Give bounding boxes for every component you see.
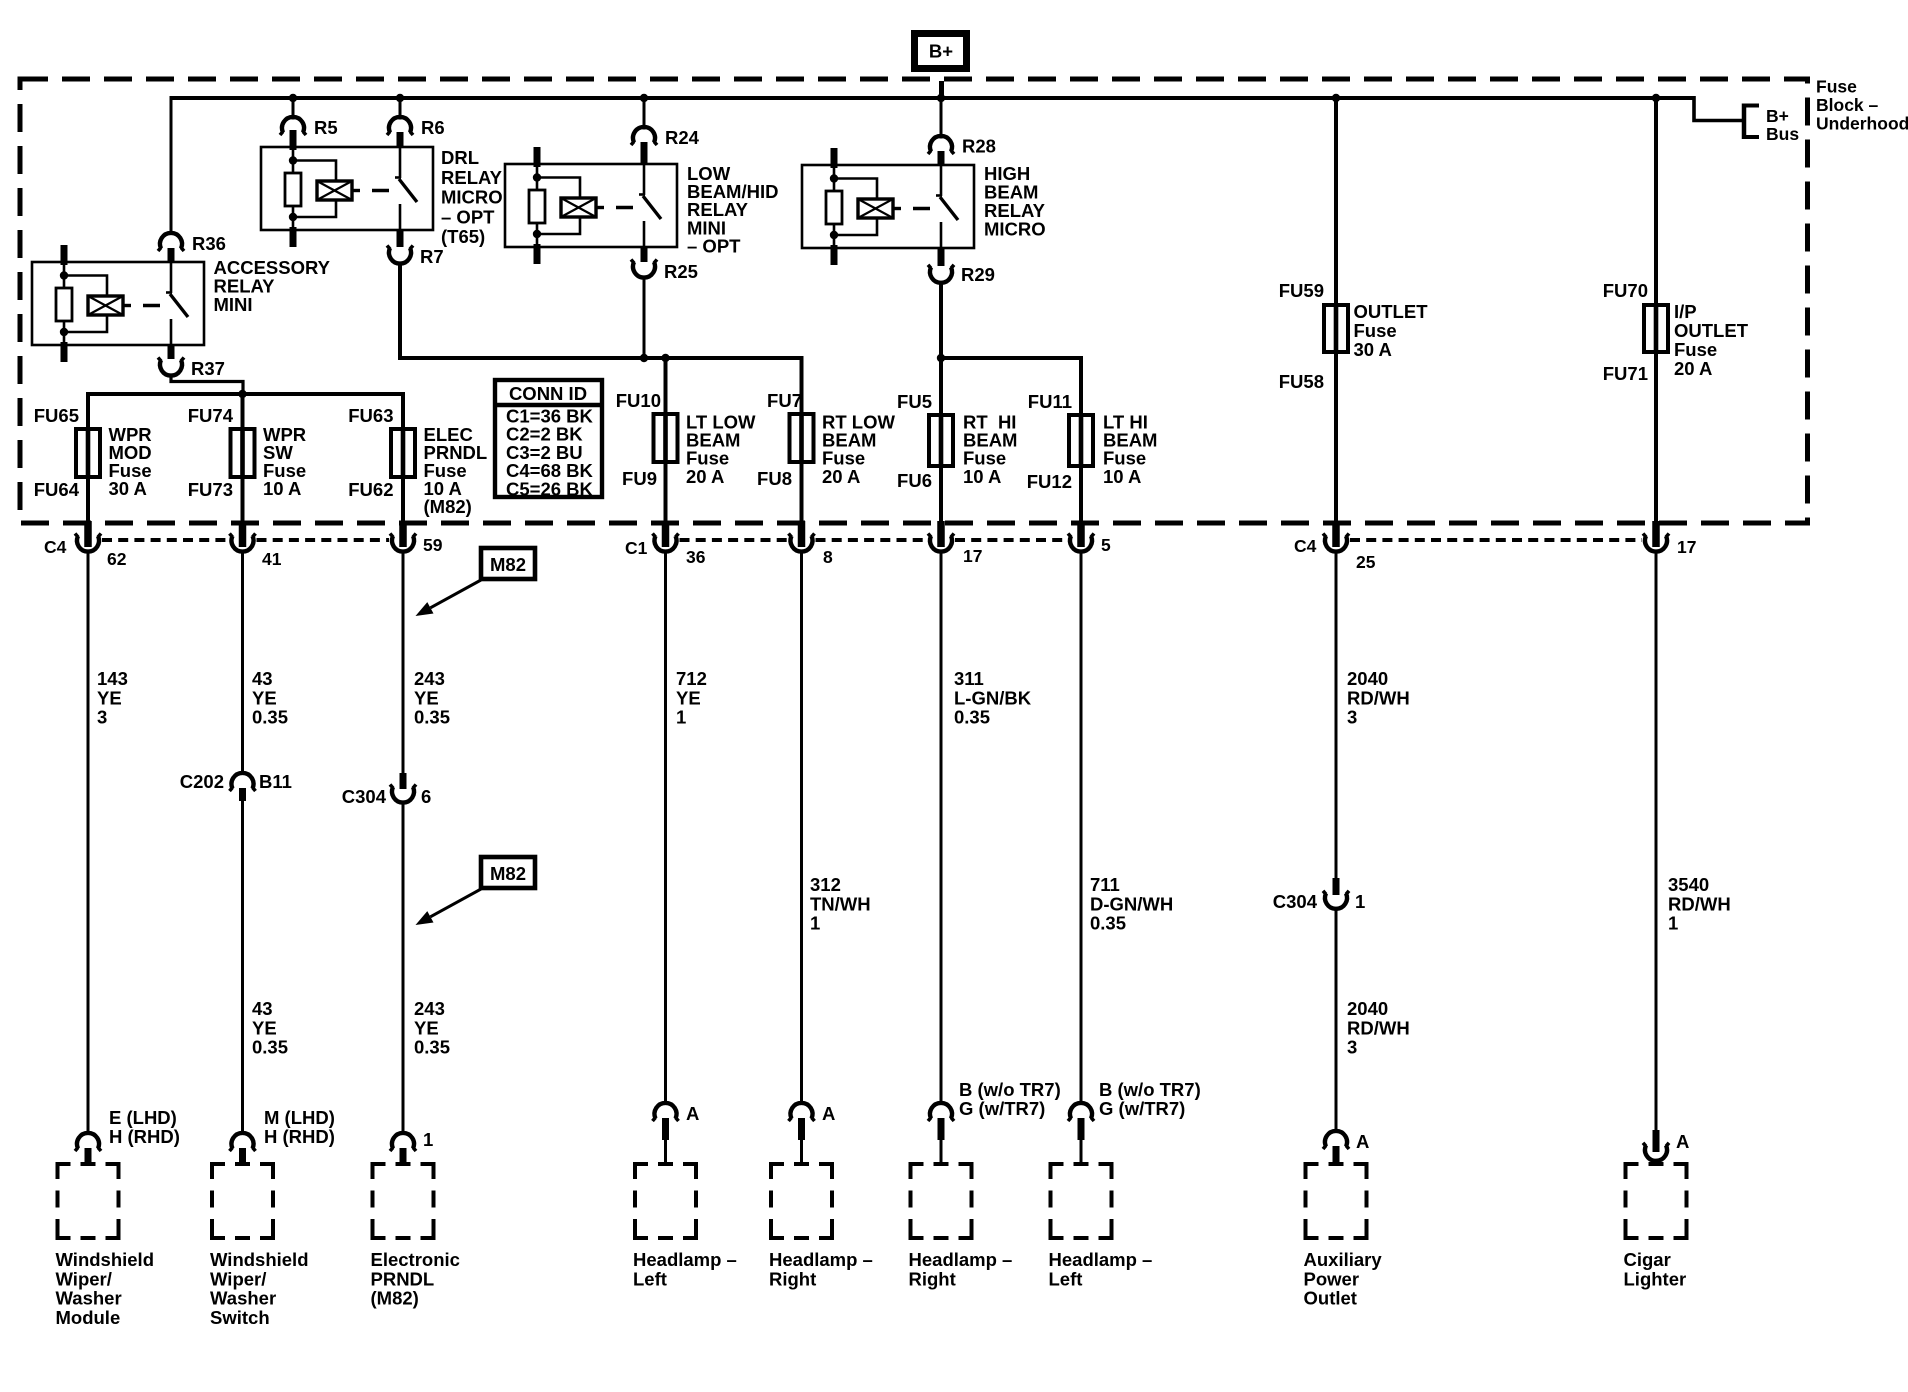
svg-text:Switch: Switch bbox=[210, 1307, 270, 1328]
svg-text:H (RHD): H (RHD) bbox=[109, 1126, 180, 1147]
svg-text:– OPT: – OPT bbox=[687, 235, 741, 256]
svg-text:0.35: 0.35 bbox=[252, 1037, 288, 1058]
svg-text:Wiper/: Wiper/ bbox=[210, 1268, 266, 1289]
svg-text:YE: YE bbox=[252, 687, 277, 708]
label wire 2040 RD/WH 3 bbox=[1347, 668, 1410, 728]
fuse FU65/FU64 WPR MOD 30A bbox=[76, 394, 100, 521]
svg-text:Headlamp –: Headlamp – bbox=[1049, 1249, 1153, 1270]
svg-text:FU5: FU5 bbox=[897, 391, 932, 412]
fuse FU7/FU8 RT LOW BEAM 20A bbox=[790, 358, 814, 521]
component: Cigar Lighter bbox=[1624, 1162, 1689, 1240]
svg-text:C202: C202 bbox=[180, 771, 224, 792]
wire: R29 to FU5 bbox=[939, 284, 943, 416]
node: bus junction FU59 bbox=[1332, 94, 1340, 102]
svg-text:143: 143 bbox=[97, 668, 128, 689]
svg-text:– OPT: – OPT bbox=[441, 206, 495, 227]
component: Headlamp Right (hi) bbox=[909, 1162, 974, 1240]
label B (w/o TR7) G (w/TR7) bbox=[1099, 1079, 1201, 1119]
svg-text:M (LHD): M (LHD) bbox=[264, 1107, 335, 1128]
svg-text:0.35: 0.35 bbox=[954, 707, 990, 728]
svg-text:FU58: FU58 bbox=[1279, 371, 1324, 392]
component: Windshield Wiper/Washer Module bbox=[56, 1162, 121, 1240]
svg-text:Fuse: Fuse bbox=[1354, 320, 1397, 341]
svg-text:Power: Power bbox=[1304, 1268, 1360, 1289]
fuse FU5/FU6 RT HI BEAM 10A bbox=[929, 358, 953, 521]
fuse block underhood dashed border bbox=[20, 79, 1808, 523]
node: junction R25/feed bbox=[640, 354, 648, 362]
component: Windshield Wiper/Washer Switch bbox=[210, 1162, 275, 1240]
relay: ACCESSORY RELAY MINI bbox=[32, 245, 204, 362]
connector pin M/H wiper switch bbox=[230, 1133, 256, 1162]
svg-text:C1: C1 bbox=[625, 538, 648, 558]
connector dotted line C4 right bbox=[1350, 538, 1642, 542]
svg-text:3540: 3540 bbox=[1668, 874, 1709, 895]
label DRL RELAY MICRO - OPT (T65) bbox=[441, 147, 503, 247]
label Windshield etc bbox=[210, 1249, 309, 1328]
svg-text:RD/WH: RD/WH bbox=[1347, 687, 1410, 708]
wire: B+ bus horizontal bbox=[171, 96, 1694, 100]
label WPR MOD Fuse 30 A bbox=[109, 424, 152, 499]
svg-text:Right: Right bbox=[769, 1268, 816, 1289]
label wire 711 D-GN/WH 0.35 bbox=[1090, 874, 1173, 934]
connector C304 pin 1 bbox=[1323, 878, 1349, 909]
relay: DRL RELAY MICRO - OPT (T65) bbox=[261, 130, 433, 247]
label Fuse Block - Underhood bbox=[1816, 77, 1908, 134]
label wire 43 YE 0.35 lower bbox=[252, 998, 288, 1058]
svg-text:YE: YE bbox=[676, 687, 701, 708]
label LOW BEAM/HID RELAY MINI - OPT bbox=[687, 163, 778, 256]
B+ power feed box bbox=[915, 34, 967, 69]
svg-text:3: 3 bbox=[1347, 707, 1357, 728]
connector dotted line C4 bbox=[102, 538, 389, 542]
svg-text:711: 711 bbox=[1090, 874, 1120, 895]
connector C4 pin 41 bbox=[230, 521, 256, 552]
svg-text:C4: C4 bbox=[1294, 536, 1317, 556]
svg-text:RELAY: RELAY bbox=[441, 167, 503, 188]
component: Headlamp Left bbox=[633, 1162, 698, 1240]
svg-text:FU65: FU65 bbox=[34, 405, 79, 426]
svg-text:R24: R24 bbox=[665, 127, 700, 148]
svg-text:FU10: FU10 bbox=[616, 390, 661, 411]
svg-text:Windshield: Windshield bbox=[56, 1249, 155, 1270]
svg-text:B+: B+ bbox=[929, 41, 953, 62]
svg-text:Fuse: Fuse bbox=[1816, 77, 1857, 97]
svg-text:1: 1 bbox=[810, 913, 820, 934]
svg-text:MICRO: MICRO bbox=[984, 219, 1046, 240]
svg-text:(T65): (T65) bbox=[441, 226, 485, 247]
svg-text:G (w/TR7): G (w/TR7) bbox=[1099, 1098, 1185, 1119]
svg-text:(M82): (M82) bbox=[371, 1288, 419, 1309]
svg-text:0.35: 0.35 bbox=[1090, 913, 1126, 934]
label wire 2040 RD/WH 3 lower bbox=[1347, 998, 1410, 1058]
svg-text:1: 1 bbox=[423, 1129, 433, 1150]
label Headlamp – etc bbox=[769, 1249, 873, 1289]
svg-text:5: 5 bbox=[1101, 535, 1111, 555]
connector pin 1 PRNDL bbox=[390, 1133, 416, 1162]
wire: R25 drop bbox=[643, 278, 646, 358]
svg-text:RD/WH: RD/WH bbox=[1668, 893, 1731, 914]
svg-text:10 A: 10 A bbox=[1103, 466, 1141, 487]
svg-text:20 A: 20 A bbox=[686, 466, 724, 487]
svg-text:Headlamp –: Headlamp – bbox=[909, 1249, 1013, 1270]
svg-text:R5: R5 bbox=[314, 117, 338, 138]
svg-text:712: 712 bbox=[676, 668, 707, 689]
label Windshield etc bbox=[56, 1249, 155, 1328]
svg-text:MICRO: MICRO bbox=[441, 187, 503, 208]
svg-text:B (w/o TR7): B (w/o TR7) bbox=[1099, 1079, 1201, 1100]
svg-text:M82: M82 bbox=[490, 554, 526, 575]
svg-text:FU62: FU62 bbox=[348, 479, 393, 500]
label wire 712 YE 1 bbox=[676, 668, 707, 728]
connector pin E/H wiper module bbox=[75, 1133, 101, 1162]
label RT LOW BEAM Fuse 20 A bbox=[822, 412, 895, 487]
label ACCESSORY RELAY MINI bbox=[214, 257, 331, 315]
svg-text:Fuse: Fuse bbox=[1674, 339, 1717, 360]
svg-text:0.35: 0.35 bbox=[414, 707, 450, 728]
svg-text:YE: YE bbox=[97, 687, 122, 708]
label ELEC PRNDL Fuse 10 A (M82) bbox=[424, 424, 488, 517]
label OUTLET Fuse 30 A bbox=[1354, 301, 1429, 360]
node: bus junction R6 bbox=[396, 94, 404, 102]
connector R7 bbox=[387, 230, 413, 264]
svg-text:Wiper/: Wiper/ bbox=[56, 1268, 112, 1289]
svg-text:Cigar: Cigar bbox=[1624, 1249, 1671, 1270]
connector pin A cigar lighter bbox=[1643, 1130, 1669, 1161]
wire 243 YE upper bbox=[402, 551, 405, 774]
wire 243 YE lower bbox=[402, 802, 405, 1135]
svg-text:Headlamp –: Headlamp – bbox=[769, 1249, 873, 1270]
svg-text:25: 25 bbox=[1356, 552, 1376, 572]
svg-text:RD/WH: RD/WH bbox=[1347, 1017, 1410, 1038]
svg-text:3: 3 bbox=[1347, 1037, 1357, 1058]
svg-text:R25: R25 bbox=[664, 261, 698, 282]
fuse FU74/FU73 WPR SW 10A bbox=[231, 394, 255, 521]
svg-text:0.35: 0.35 bbox=[414, 1037, 450, 1058]
svg-text:FU73: FU73 bbox=[188, 479, 233, 500]
wire: bus left drop to R36 bbox=[170, 96, 173, 235]
svg-text:1: 1 bbox=[676, 707, 686, 728]
svg-text:R7: R7 bbox=[420, 246, 444, 267]
wire 311 L-GN/BK bbox=[940, 551, 943, 1105]
svg-text:10 A: 10 A bbox=[963, 466, 1001, 487]
label Headlamp – etc bbox=[909, 1249, 1013, 1289]
svg-text:YE: YE bbox=[252, 1017, 277, 1038]
svg-text:B+: B+ bbox=[1766, 106, 1789, 126]
svg-text:59: 59 bbox=[423, 535, 443, 555]
component: Headlamp Left (hi) bbox=[1049, 1162, 1114, 1240]
svg-text:FU71: FU71 bbox=[1603, 363, 1648, 384]
svg-text:Lighter: Lighter bbox=[1624, 1268, 1687, 1289]
label WPR SW Fuse 10 A bbox=[263, 424, 306, 499]
label HIGH BEAM RELAY MICRO bbox=[984, 163, 1046, 240]
svg-text:20 A: 20 A bbox=[822, 466, 860, 487]
svg-text:6: 6 bbox=[421, 786, 431, 807]
label Electronic etc bbox=[371, 1249, 460, 1309]
wire 3540 RD/WH bbox=[1655, 551, 1658, 1131]
node: rail junction FU74 bbox=[238, 390, 246, 398]
node: bus junction R5 bbox=[289, 94, 297, 102]
connector pin A aux power outlet bbox=[1323, 1131, 1349, 1162]
svg-text:Auxiliary: Auxiliary bbox=[1304, 1249, 1383, 1270]
label wire 3540 RD/WH 1 bbox=[1668, 874, 1731, 934]
svg-text:FU11: FU11 bbox=[1028, 391, 1072, 412]
wire: bus to R24 bbox=[643, 98, 646, 130]
svg-text:B11: B11 bbox=[259, 771, 292, 792]
svg-text:C304: C304 bbox=[1273, 891, 1318, 912]
connector R24 bbox=[631, 127, 657, 164]
svg-text:M82: M82 bbox=[490, 863, 526, 884]
svg-text:FU6: FU6 bbox=[897, 470, 932, 491]
relay: LOW BEAM/HID RELAY MINI - OPT bbox=[505, 147, 677, 264]
svg-text:DRL: DRL bbox=[441, 147, 479, 168]
svg-text:Underhood: Underhood bbox=[1816, 114, 1908, 134]
label wire 243 YE 0.35 lower bbox=[414, 998, 450, 1058]
svg-text:Outlet: Outlet bbox=[1304, 1288, 1357, 1309]
svg-text:0.35: 0.35 bbox=[252, 707, 288, 728]
svg-text:Right: Right bbox=[909, 1268, 956, 1289]
svg-text:Electronic: Electronic bbox=[371, 1249, 460, 1270]
svg-text:1: 1 bbox=[1668, 913, 1678, 934]
label B (w/o TR7) G (w/TR7) bbox=[959, 1079, 1061, 1119]
node: bus junction B+ bbox=[937, 94, 945, 102]
connector R37 bbox=[158, 345, 184, 376]
svg-text:CONN ID: CONN ID bbox=[509, 383, 587, 404]
wire: fuse rail bbox=[88, 394, 403, 429]
connector C1 pin 8 bbox=[789, 521, 815, 552]
label wire 243 YE 0.35 bbox=[414, 668, 450, 728]
svg-text:A: A bbox=[1356, 1131, 1369, 1152]
component: Auxiliary Power Outlet bbox=[1304, 1162, 1369, 1240]
svg-text:R28: R28 bbox=[962, 136, 996, 157]
svg-text:FU59: FU59 bbox=[1279, 280, 1324, 301]
svg-text:R29: R29 bbox=[961, 264, 995, 285]
connector C202 pin B11 bbox=[230, 773, 256, 801]
svg-text:10 A: 10 A bbox=[263, 478, 301, 499]
svg-text:3: 3 bbox=[97, 707, 107, 728]
svg-text:Left: Left bbox=[633, 1268, 667, 1289]
wire: bus to R28 bbox=[940, 98, 943, 139]
connector C4 pin 17 right bbox=[1643, 521, 1669, 552]
svg-text:D-GN/WH: D-GN/WH bbox=[1090, 893, 1173, 914]
connector R28 bbox=[928, 136, 954, 166]
svg-text:B (w/o TR7): B (w/o TR7) bbox=[959, 1079, 1061, 1100]
label Cigar etc bbox=[1624, 1249, 1687, 1289]
component: Headlamp Right bbox=[769, 1162, 834, 1240]
svg-text:OUTLET: OUTLET bbox=[1674, 320, 1749, 341]
svg-text:43: 43 bbox=[252, 998, 273, 1019]
svg-text:R37: R37 bbox=[191, 358, 225, 379]
svg-text:20 A: 20 A bbox=[1674, 358, 1712, 379]
svg-text:FU74: FU74 bbox=[188, 405, 234, 426]
svg-text:2040: 2040 bbox=[1347, 668, 1388, 689]
connector R5 bbox=[280, 117, 306, 148]
label wire 43 YE 0.35 bbox=[252, 668, 288, 728]
fuse FU59/FU58 OUTLET 30A bbox=[1324, 98, 1348, 521]
connector pin A headlamp left bbox=[653, 1103, 679, 1162]
svg-text:17: 17 bbox=[1677, 537, 1696, 557]
component: Electronic PRNDL (M82) bbox=[371, 1162, 436, 1240]
connector C1 pin 17 bbox=[928, 521, 954, 552]
connector C4 pin 25 bbox=[1323, 521, 1349, 552]
label Headlamp – etc bbox=[1049, 1249, 1153, 1289]
label LT HI BEAM Fuse 10 A bbox=[1103, 412, 1157, 487]
svg-text:FU9: FU9 bbox=[622, 468, 657, 489]
node: bus junction FU70 bbox=[1652, 94, 1660, 102]
label wire 143 YE 3 bbox=[97, 668, 128, 728]
node: bus junction R24 bbox=[640, 94, 648, 102]
svg-text:A: A bbox=[1676, 1131, 1689, 1152]
svg-text:Block –: Block – bbox=[1816, 95, 1879, 115]
svg-text:Washer: Washer bbox=[56, 1288, 122, 1309]
wire: R37 to fuse rail bbox=[171, 376, 243, 394]
svg-text:R36: R36 bbox=[192, 233, 226, 254]
svg-text:H (RHD): H (RHD) bbox=[264, 1126, 335, 1147]
label LT LOW BEAM Fuse 20 A bbox=[686, 412, 756, 487]
svg-text:30 A: 30 A bbox=[1354, 339, 1392, 360]
label Auxiliary etc bbox=[1304, 1249, 1383, 1309]
connector C4 pin 59 bbox=[390, 521, 416, 552]
label wire 311 L-GN/BK 0.35 bbox=[954, 668, 1032, 728]
svg-text:36: 36 bbox=[686, 547, 706, 567]
connector pin B/G headlamp right hi bbox=[928, 1103, 954, 1162]
svg-text:C304: C304 bbox=[342, 786, 387, 807]
callout M82 lower bbox=[416, 857, 536, 925]
svg-text:FU63: FU63 bbox=[348, 405, 393, 426]
wire 43 YE lower bbox=[241, 800, 244, 1135]
fuse FU63/FU62 ELEC PRNDL 10A bbox=[391, 394, 415, 521]
svg-text:243: 243 bbox=[414, 998, 445, 1019]
svg-text:17: 17 bbox=[963, 546, 982, 566]
CONN ID table bbox=[495, 380, 602, 499]
svg-text:FU7: FU7 bbox=[767, 390, 802, 411]
connector R29 bbox=[928, 249, 954, 283]
relay: HIGH BEAM RELAY MICRO bbox=[802, 148, 974, 265]
wire 712 YE bbox=[664, 551, 667, 1105]
svg-text:A: A bbox=[822, 1103, 835, 1124]
svg-text:L-GN/BK: L-GN/BK bbox=[954, 687, 1032, 708]
connector C4 pin 62 bbox=[75, 521, 101, 552]
svg-text:Left: Left bbox=[1049, 1268, 1083, 1289]
svg-text:YE: YE bbox=[414, 1017, 439, 1038]
connector C1 pin 36 bbox=[653, 521, 679, 552]
svg-text:TN/WH: TN/WH bbox=[810, 893, 871, 914]
svg-text:Headlamp –: Headlamp – bbox=[633, 1249, 737, 1270]
connector R25 bbox=[631, 247, 657, 278]
fuse FU11/FU12 LT HI BEAM 10A bbox=[1069, 358, 1093, 521]
fuse FU10/FU9 LT LOW BEAM 20A bbox=[654, 358, 678, 521]
connector pin B/G headlamp left hi bbox=[1068, 1103, 1094, 1162]
wire B+ to bus bbox=[939, 81, 944, 100]
svg-text:312: 312 bbox=[810, 874, 841, 895]
wire 711 D-GN/WH bbox=[1080, 551, 1083, 1105]
wire 2040 RD/WH lower bbox=[1335, 908, 1338, 1133]
svg-text:C4: C4 bbox=[44, 537, 67, 557]
svg-text:OUTLET: OUTLET bbox=[1354, 301, 1429, 322]
svg-text:FU12: FU12 bbox=[1027, 471, 1072, 492]
B+ Bus symbol bbox=[1742, 104, 1759, 140]
svg-text:FU64: FU64 bbox=[34, 479, 80, 500]
svg-text:30 A: 30 A bbox=[109, 478, 147, 499]
svg-text:311: 311 bbox=[954, 668, 984, 689]
svg-text:Bus: Bus bbox=[1766, 124, 1799, 144]
label I/P OUTLET Fuse 20 A bbox=[1674, 301, 1749, 379]
svg-text:Windshield: Windshield bbox=[210, 1249, 309, 1270]
wire: branch to FU11 bbox=[941, 358, 1081, 415]
svg-text:MINI: MINI bbox=[214, 294, 253, 315]
svg-text:43: 43 bbox=[252, 668, 273, 689]
svg-text:62: 62 bbox=[107, 549, 127, 569]
connector R36 bbox=[158, 233, 184, 262]
label Headlamp – etc bbox=[633, 1249, 737, 1289]
svg-text:41: 41 bbox=[262, 549, 282, 569]
svg-text:Module: Module bbox=[56, 1307, 121, 1328]
svg-text:1: 1 bbox=[1355, 891, 1365, 912]
wire 2040 RD/WH upper bbox=[1335, 551, 1338, 878]
wire: bus to B+ Bus bracket bbox=[1694, 96, 1744, 121]
wire: bus to R6 bbox=[399, 98, 402, 120]
connector pin A headlamp right bbox=[789, 1103, 815, 1162]
node: junction FU10/feed bbox=[661, 354, 669, 362]
svg-text:Washer: Washer bbox=[210, 1288, 276, 1309]
connector C304 pin 6 bbox=[390, 773, 416, 803]
wire: R7 to low beam fuse feed bbox=[400, 264, 802, 414]
svg-text:E (LHD): E (LHD) bbox=[109, 1107, 177, 1128]
callout M82 upper bbox=[416, 548, 536, 616]
connector R6 bbox=[387, 117, 413, 148]
svg-text:8: 8 bbox=[823, 547, 833, 567]
svg-text:2040: 2040 bbox=[1347, 998, 1388, 1019]
wire 312 TN/WH bbox=[800, 551, 803, 1105]
connector dotted line C1 bbox=[680, 538, 1068, 542]
svg-text:G (w/TR7): G (w/TR7) bbox=[959, 1098, 1045, 1119]
wire: bus to R5 bbox=[292, 98, 295, 120]
node: junction FU11 branch bbox=[937, 354, 945, 362]
svg-text:PRNDL: PRNDL bbox=[371, 1268, 435, 1289]
svg-text:FU8: FU8 bbox=[757, 468, 792, 489]
label wire 312 TN/WH 1 bbox=[810, 874, 871, 934]
label E (LHD) H (RHD) bbox=[109, 1107, 180, 1147]
svg-text:YE: YE bbox=[414, 687, 439, 708]
svg-text:I/P: I/P bbox=[1674, 301, 1697, 322]
wire 43 YE upper bbox=[241, 551, 244, 775]
wire 143 YE to wiper module bbox=[87, 551, 90, 1135]
svg-text:243: 243 bbox=[414, 668, 445, 689]
connector C1 pin 5 bbox=[1068, 521, 1094, 552]
label RT HI BEAM Fuse 10 A bbox=[963, 412, 1017, 487]
label B+ Bus bbox=[1766, 106, 1799, 144]
svg-text:FU70: FU70 bbox=[1603, 280, 1648, 301]
fuse FU70/FU71 I/P OUTLET 20A bbox=[1644, 98, 1668, 521]
wire: FU10 drop bbox=[664, 358, 668, 414]
svg-text:R6: R6 bbox=[421, 117, 445, 138]
svg-text:A: A bbox=[686, 1103, 699, 1124]
label M (LHD) H (RHD) bbox=[264, 1107, 335, 1147]
svg-text:(M82): (M82) bbox=[424, 496, 472, 517]
svg-text:C5=26 BK: C5=26 BK bbox=[506, 478, 594, 499]
